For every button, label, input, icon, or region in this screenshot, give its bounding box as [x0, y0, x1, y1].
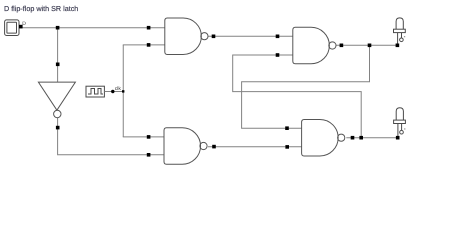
nand gate U3 [293, 27, 336, 64]
wire inverter output down and right to nand U2 input 2 [58, 118, 164, 155]
pin nand U1 input 1 [147, 26, 151, 30]
junction Qbar feedback [359, 136, 363, 140]
pin nand U3 output [340, 44, 344, 48]
junction mid wire to inverter [56, 63, 60, 67]
input switch D [5, 20, 19, 36]
pin nand U4 input 1 [285, 126, 289, 130]
svg-text:D: D [22, 21, 26, 27]
pin inverter output [56, 126, 60, 130]
pin LED1 [396, 44, 400, 48]
pin nand U1 output [212, 35, 216, 39]
pin LED2 [396, 136, 400, 140]
wire nand U3 output to LED1 [336, 44, 398, 46]
pin nand U4 input 2 [285, 145, 289, 149]
pin nand U2 input 2 [147, 153, 151, 157]
wire clock output stub [104, 91, 123, 93]
wire feedback Q to nand U4 input 1 [242, 45, 370, 128]
junction clk line [122, 90, 124, 92]
led LED2 [394, 108, 406, 137]
wire clk vertical trunk [122, 45, 124, 137]
pin nand U1 input 2 [147, 43, 151, 47]
wire D to nand U1 input 1 [19, 27, 165, 29]
wire feedback Qbar to nand U3 input 2 [233, 55, 362, 138]
led LED1 [394, 18, 406, 44]
pin nand U2 output [212, 145, 216, 149]
not gate U5 [38, 82, 75, 118]
pin clock output [111, 90, 114, 93]
wire nand U1 output to nand U3 input 1 [208, 35, 293, 37]
wire D branch down to inverter [57, 28, 59, 82]
wire nand U4 output to LED2 [346, 137, 397, 139]
wire nand U2 output to nand U4 input 2 [208, 146, 302, 148]
junction on D wire [56, 26, 60, 30]
wire clk to nand U1 input 2 [123, 44, 165, 46]
pin nand U2 input 1 [147, 135, 151, 139]
pin nand U4 output [351, 136, 355, 140]
nand gate U4 [302, 119, 345, 156]
svg-text:clk: clk [115, 86, 122, 92]
pin D output [19, 25, 23, 29]
svg-text:D flip-flop with SR latch: D flip-flop with SR latch [4, 4, 78, 13]
clock CLK [86, 86, 104, 97]
nand gate U1 [165, 18, 208, 55]
junction Q feedback [368, 44, 372, 48]
nand gate U2 [164, 128, 207, 165]
wire clk to nand U2 input 1 [123, 136, 164, 138]
pin nand U3 input 1 [276, 35, 280, 39]
pin nand U3 input 2 [276, 53, 280, 57]
